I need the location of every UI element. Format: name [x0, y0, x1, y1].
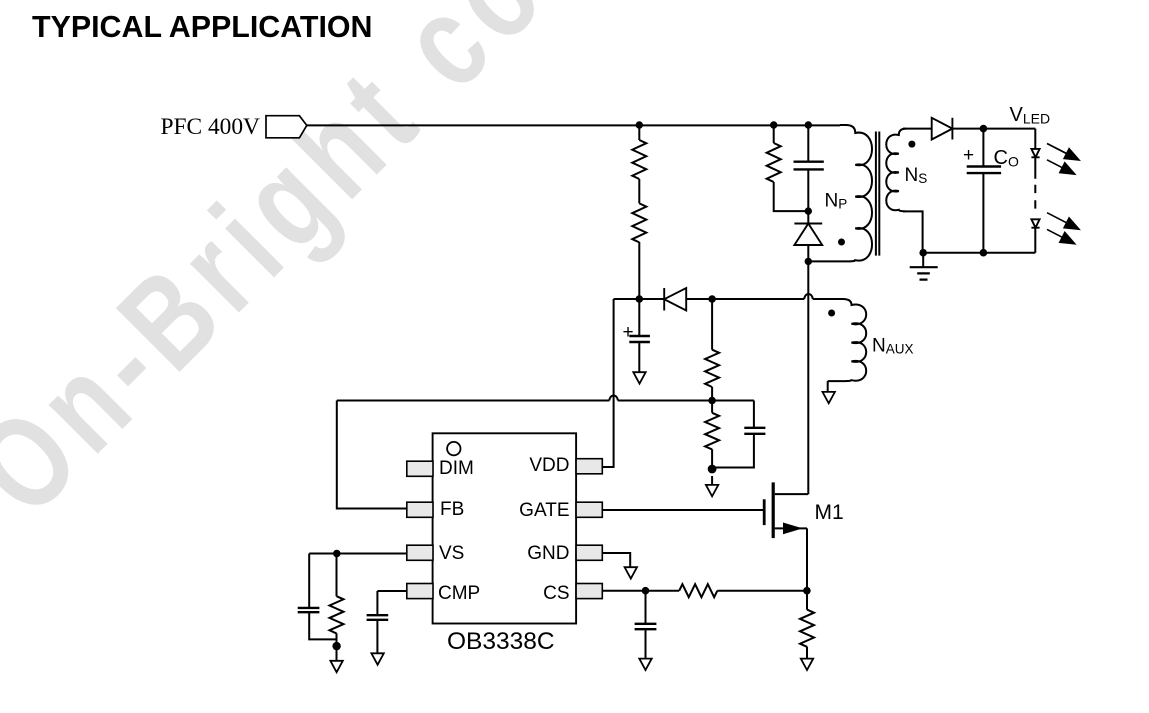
svg-text:+: +	[963, 145, 974, 166]
svg-text:PFC 400V: PFC 400V	[161, 114, 261, 140]
svg-text:VS: VS	[439, 543, 464, 564]
svg-text:CMP: CMP	[438, 583, 480, 604]
svg-text:M1: M1	[815, 501, 844, 524]
svg-text:TYPICAL APPLICATION: TYPICAL APPLICATION	[32, 10, 373, 44]
svg-text:OB3338C: OB3338C	[447, 628, 555, 655]
svg-text:DIM: DIM	[439, 458, 474, 479]
svg-text:CS: CS	[543, 583, 569, 604]
svg-text:+: +	[623, 322, 634, 343]
svg-text:GATE: GATE	[519, 500, 569, 521]
svg-text:VDD: VDD	[529, 455, 569, 476]
svg-text:FB: FB	[440, 499, 464, 520]
svg-text:GND: GND	[527, 543, 569, 564]
